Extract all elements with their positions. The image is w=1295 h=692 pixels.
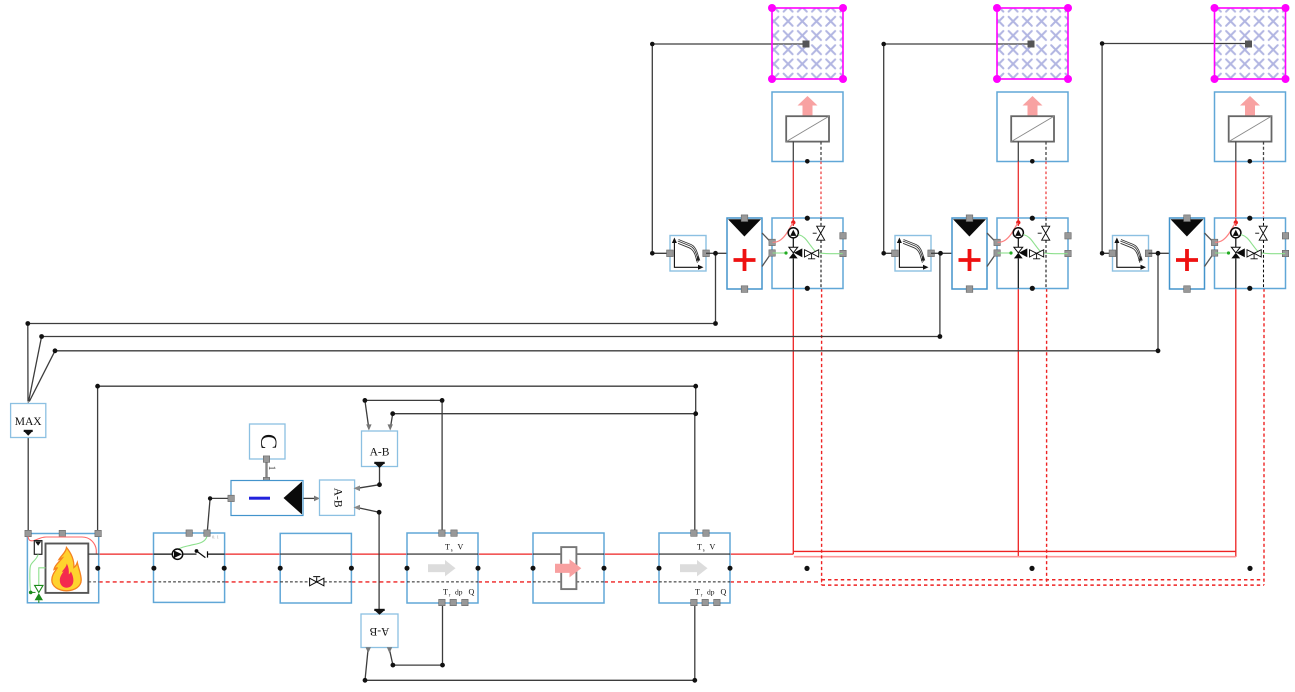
svg-text:1: 1 <box>267 466 277 471</box>
svg-text:A-B: A-B <box>331 488 343 508</box>
svg-text:A-B: A-B <box>370 447 390 459</box>
svg-text:C: C <box>256 434 281 449</box>
svg-text:MAX: MAX <box>15 416 43 428</box>
svg-text:A-B: A-B <box>369 625 389 637</box>
svg-text:0. 1: 0. 1 <box>212 535 220 540</box>
